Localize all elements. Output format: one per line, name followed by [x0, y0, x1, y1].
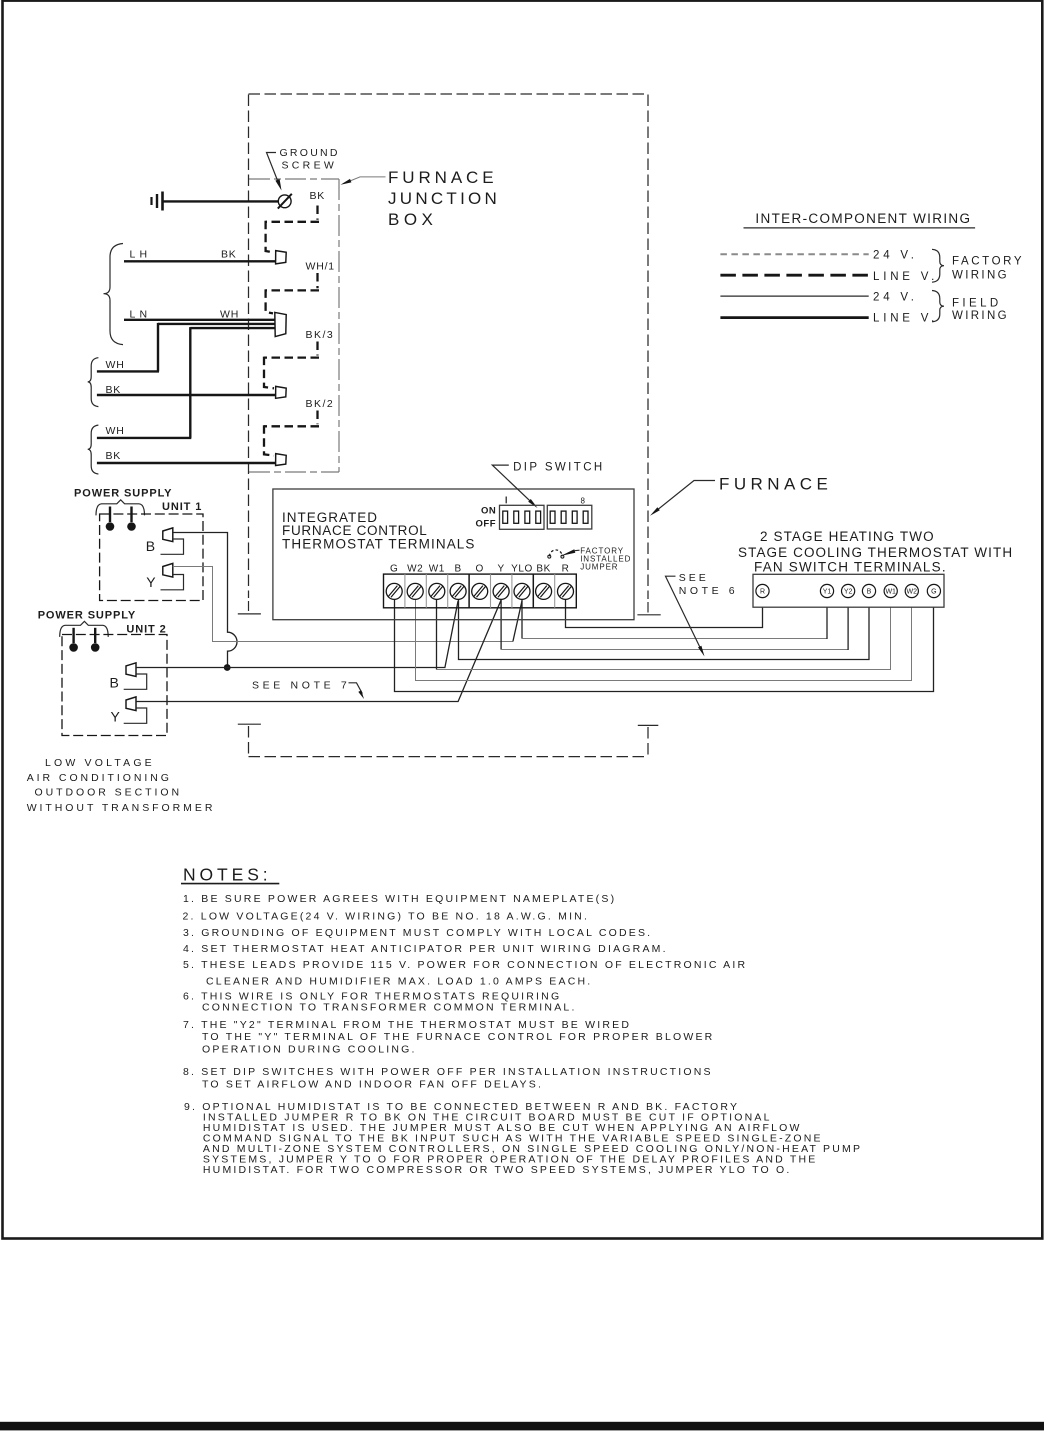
svg-text:FIELD: FIELD	[952, 298, 1002, 310]
svg-text:JUMPER: JUMPER	[580, 562, 618, 571]
svg-text:WH: WH	[106, 425, 125, 437]
svg-text:HUMIDISTAT. FOR TWO COMPRESSOR: HUMIDISTAT. FOR TWO COMPRESSOR OR TWO SP…	[203, 1164, 792, 1176]
svg-text:WIRING: WIRING	[952, 310, 1009, 322]
svg-text:FURNACE: FURNACE	[388, 168, 497, 187]
svg-text:TO THE "Y" TERMINAL OF THE FUR: TO THE "Y" TERMINAL OF THE FURNACE CONTR…	[202, 1031, 714, 1043]
svg-text:CONNECTION TO TRANSFORMER COMM: CONNECTION TO TRANSFORMER COMMON TERMINA…	[202, 1002, 577, 1014]
svg-text:4. SET THERMOSTAT HEAT ANTICIP: 4. SET THERMOSTAT HEAT ANTICIPATOR PER U…	[183, 943, 668, 955]
svg-text:SEE: SEE	[679, 572, 709, 584]
svg-text:Y2: Y2	[844, 589, 853, 596]
svg-text:WH/1: WH/1	[306, 261, 335, 273]
svg-text:NOTES:: NOTES:	[183, 864, 272, 884]
svg-text:FAN SWITCH TERMINALS.: FAN SWITCH TERMINALS.	[754, 560, 947, 575]
svg-text:CLEANER AND HUMIDIFIER MAX. LO: CLEANER AND HUMIDIFIER MAX. LOAD 1.0 AMP…	[206, 976, 592, 988]
svg-text:Y: Y	[146, 574, 156, 590]
svg-text:W1: W1	[429, 564, 445, 575]
svg-text:UNIT 2: UNIT 2	[126, 624, 166, 636]
svg-text:R: R	[562, 564, 570, 575]
svg-text:YLO: YLO	[511, 564, 533, 575]
svg-text:JUNCTION: JUNCTION	[388, 189, 500, 208]
svg-text:W1: W1	[885, 589, 896, 596]
svg-text:SEE NOTE 7: SEE NOTE 7	[252, 680, 350, 692]
svg-text:BK/3: BK/3	[306, 329, 335, 341]
svg-text:BK: BK	[221, 248, 237, 260]
svg-text:Y1: Y1	[823, 589, 832, 596]
svg-text:BOX: BOX	[388, 210, 437, 229]
svg-text:B: B	[454, 564, 461, 575]
svg-text:Y: Y	[497, 564, 504, 575]
svg-text:INTER-COMPONENT WIRING: INTER-COMPONENT WIRING	[755, 211, 971, 226]
svg-text:24 V.: 24 V.	[873, 250, 918, 262]
svg-text:Y: Y	[111, 709, 121, 725]
svg-text:LOW VOLTAGE: LOW VOLTAGE	[45, 757, 155, 769]
svg-text:B: B	[867, 589, 872, 596]
svg-text:WIRING: WIRING	[952, 270, 1009, 282]
svg-text:UNIT 1: UNIT 1	[162, 501, 202, 513]
svg-text:B: B	[110, 675, 119, 691]
svg-text:WH: WH	[106, 359, 125, 371]
svg-text:G: G	[931, 589, 936, 596]
svg-text:THERMOSTAT TERMINALS: THERMOSTAT TERMINALS	[282, 537, 476, 552]
svg-text:7. THE "Y2" TERMINAL FROM THE: 7. THE "Y2" TERMINAL FROM THE THERMOSTAT…	[183, 1019, 631, 1031]
svg-text:2. LOW VOLTAGE(24 V. WIRING) T: 2. LOW VOLTAGE(24 V. WIRING) TO BE NO. 1…	[183, 911, 590, 923]
svg-text:1. BE SURE POWER AGREES WITH E: 1. BE SURE POWER AGREES WITH EQUIPMENT N…	[183, 893, 616, 905]
svg-text:STAGE COOLING THERMOSTAT WITH: STAGE COOLING THERMOSTAT WITH	[738, 545, 1013, 560]
svg-text:BK: BK	[536, 564, 551, 575]
svg-text:AIR CONDITIONING: AIR CONDITIONING	[27, 772, 172, 784]
svg-text:OPERATION DURING COOLING.: OPERATION DURING COOLING.	[202, 1044, 417, 1056]
svg-text:O: O	[476, 564, 484, 575]
svg-text:W2: W2	[907, 589, 918, 596]
svg-text:R: R	[760, 589, 765, 596]
svg-text:GROUND: GROUND	[280, 147, 340, 159]
svg-text:2 STAGE HEATING TWO: 2 STAGE HEATING TWO	[760, 529, 935, 544]
svg-text:3. GROUNDING OF EQUIPMENT MUST: 3. GROUNDING OF EQUIPMENT MUST COMPLY WI…	[183, 927, 652, 939]
svg-text:BK/2: BK/2	[306, 398, 335, 410]
svg-text:BK: BK	[310, 190, 326, 202]
svg-text:24 V.: 24 V.	[873, 292, 918, 304]
svg-text:8: 8	[581, 496, 586, 505]
svg-text:BK: BK	[106, 450, 122, 462]
svg-text:OUTDOOR SECTION: OUTDOOR SECTION	[35, 787, 183, 799]
svg-text:W2: W2	[407, 564, 423, 575]
svg-text:L H: L H	[130, 248, 148, 260]
svg-text:OFF: OFF	[476, 518, 497, 529]
svg-text:FURNACE: FURNACE	[719, 475, 832, 494]
svg-text:POWER SUPPLY: POWER SUPPLY	[74, 488, 172, 500]
svg-text:NOTE 6: NOTE 6	[679, 585, 739, 597]
svg-text:8. SET DIP SWITCHES WITH POWER: 8. SET DIP SWITCHES WITH POWER OFF PER I…	[183, 1066, 713, 1078]
svg-text:LINE V.: LINE V.	[873, 271, 938, 283]
svg-text:LINE V.: LINE V.	[873, 313, 938, 325]
svg-text:SCREW: SCREW	[282, 159, 338, 171]
svg-text:G: G	[390, 564, 398, 575]
svg-text:DIP SWITCH: DIP SWITCH	[513, 461, 605, 473]
svg-text:B: B	[146, 538, 155, 554]
svg-text:5. THESE LEADS PROVIDE 115 V.: 5. THESE LEADS PROVIDE 115 V. POWER FOR …	[183, 959, 747, 971]
svg-text:POWER SUPPLY: POWER SUPPLY	[38, 609, 136, 621]
svg-text:FACTORY: FACTORY	[952, 256, 1024, 268]
svg-text:TO SET AIRFLOW AND INDOOR FAN: TO SET AIRFLOW AND INDOOR FAN OFF DELAYS…	[202, 1079, 543, 1091]
svg-text:ON: ON	[481, 506, 496, 517]
svg-text:WITHOUT TRANSFORMER: WITHOUT TRANSFORMER	[27, 802, 216, 814]
